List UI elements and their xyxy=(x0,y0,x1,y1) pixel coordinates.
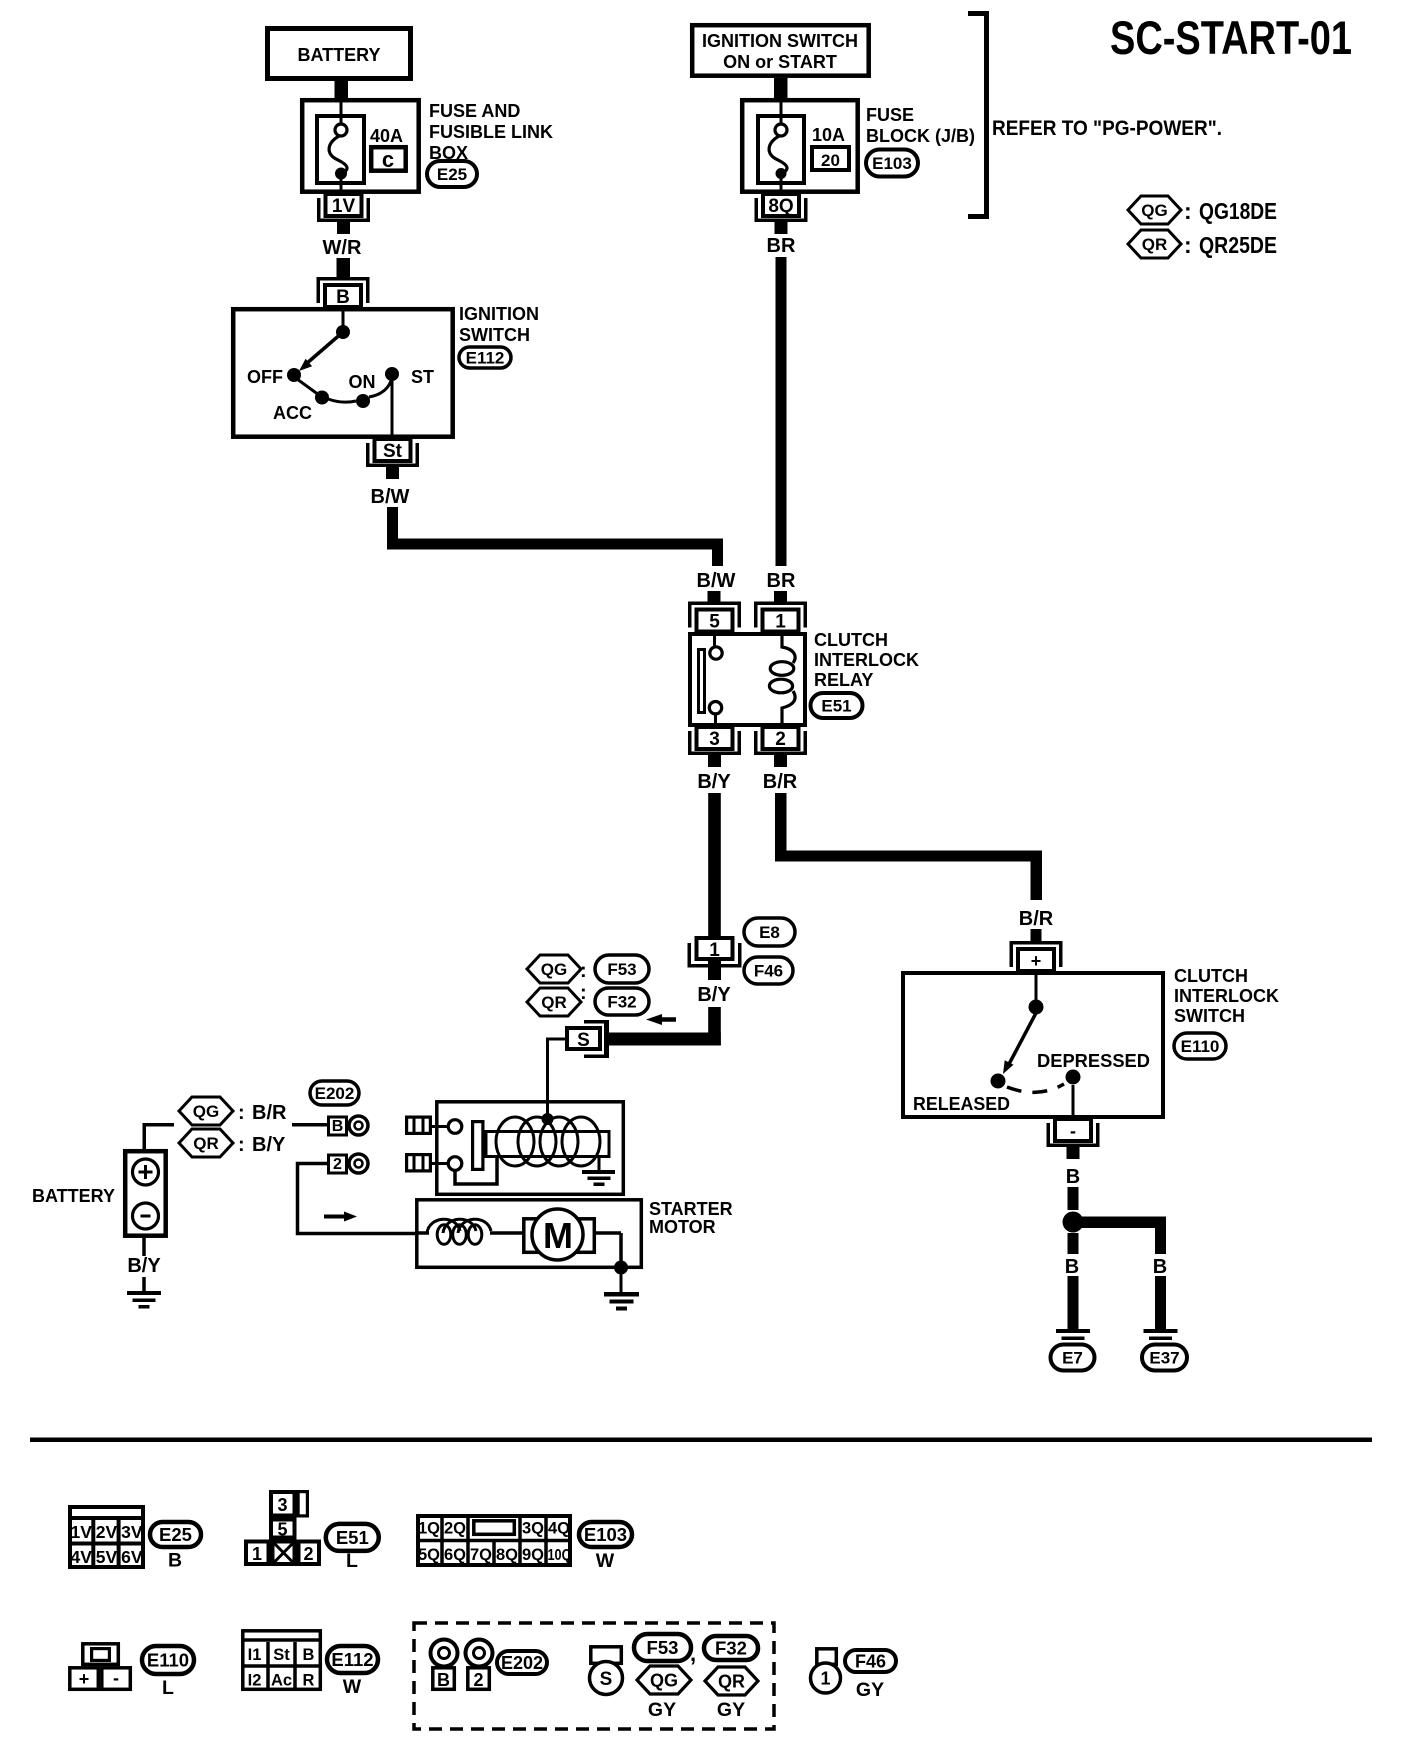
svg-text:4Q: 4Q xyxy=(548,1520,570,1538)
svg-text:ST: ST xyxy=(411,367,434,387)
svg-text:B: B xyxy=(332,1118,344,1135)
svg-text:E202: E202 xyxy=(501,1653,543,1673)
svg-text:B: B xyxy=(1065,1256,1079,1278)
svg-text:E8: E8 xyxy=(759,923,780,942)
svg-text:7Q: 7Q xyxy=(470,1546,492,1564)
svg-text:9Q: 9Q xyxy=(522,1546,544,1564)
svg-text:B/W: B/W xyxy=(371,486,410,508)
svg-text::: : xyxy=(580,960,587,982)
svg-text:L: L xyxy=(346,1550,358,1572)
svg-text:S: S xyxy=(600,1669,613,1690)
svg-text:5Q: 5Q xyxy=(418,1546,440,1564)
svg-text:BR: BR xyxy=(767,570,796,592)
svg-text:1V: 1V xyxy=(332,196,356,217)
svg-text:SWITCH: SWITCH xyxy=(1174,1006,1245,1026)
svg-text:8Q: 8Q xyxy=(768,196,793,217)
svg-text:QG: QG xyxy=(650,1671,678,1691)
svg-text:BR: BR xyxy=(767,235,796,257)
svg-text:QG: QG xyxy=(541,960,567,979)
svg-text:,: , xyxy=(690,1641,696,1666)
svg-text:ACC: ACC xyxy=(273,403,312,423)
svg-text:3Q: 3Q xyxy=(522,1520,544,1538)
svg-text:2: 2 xyxy=(775,729,786,750)
svg-text:5: 5 xyxy=(709,612,720,633)
svg-text:+: + xyxy=(1031,951,1042,971)
svg-text:QG18DE: QG18DE xyxy=(1199,198,1277,224)
svg-text:B/R: B/R xyxy=(1019,908,1054,930)
svg-text:REFER TO "PG-POWER".: REFER TO "PG-POWER". xyxy=(992,117,1222,140)
svg-text::: : xyxy=(1184,232,1192,258)
svg-text:E112: E112 xyxy=(331,1649,373,1670)
svg-text:5V: 5V xyxy=(96,1547,118,1567)
svg-text:B/Y: B/Y xyxy=(697,984,731,1006)
svg-text:B/R: B/R xyxy=(763,771,798,793)
svg-text:-: - xyxy=(113,1668,119,1688)
svg-text:QR: QR xyxy=(541,993,567,1012)
svg-text:2: 2 xyxy=(303,1544,313,1564)
svg-text:E51: E51 xyxy=(821,697,851,716)
svg-text:6V: 6V xyxy=(121,1547,143,1567)
svg-text::: : xyxy=(238,1102,245,1124)
svg-text:RELAY: RELAY xyxy=(814,670,873,690)
svg-text:W: W xyxy=(596,1550,615,1572)
svg-text:5: 5 xyxy=(277,1520,287,1540)
svg-text:E110: E110 xyxy=(1181,1037,1220,1056)
svg-text:E25: E25 xyxy=(159,1524,192,1545)
svg-text:RELEASED: RELEASED xyxy=(913,1094,1010,1114)
svg-text:F32: F32 xyxy=(715,1638,747,1659)
svg-text:SWITCH: SWITCH xyxy=(459,325,530,345)
svg-text:B: B xyxy=(1066,1166,1080,1188)
svg-text:SC-START-01: SC-START-01 xyxy=(1110,11,1352,64)
svg-text:QG: QG xyxy=(193,1102,219,1121)
svg-text:I1: I1 xyxy=(248,1646,262,1664)
svg-text:B/R: B/R xyxy=(252,1102,287,1124)
svg-text:BLOCK (J/B): BLOCK (J/B) xyxy=(866,126,975,146)
svg-text:B/W: B/W xyxy=(697,570,736,592)
svg-text:F46: F46 xyxy=(855,1652,886,1672)
svg-text:L: L xyxy=(162,1677,174,1699)
svg-text::: : xyxy=(1184,198,1192,224)
svg-text:QG: QG xyxy=(1141,201,1167,220)
svg-text:E112: E112 xyxy=(466,349,505,368)
svg-text:B: B xyxy=(1153,1256,1167,1278)
svg-text:ON or START: ON or START xyxy=(723,52,837,72)
svg-text:W: W xyxy=(343,1676,362,1698)
svg-text:1: 1 xyxy=(820,1669,830,1689)
svg-text:B/Y: B/Y xyxy=(697,771,731,793)
svg-text:CLUTCH: CLUTCH xyxy=(814,630,888,650)
svg-text:GY: GY xyxy=(648,1699,676,1721)
svg-text:B/Y: B/Y xyxy=(127,1255,161,1277)
svg-text:3: 3 xyxy=(277,1495,287,1515)
svg-text:1: 1 xyxy=(252,1544,262,1564)
svg-text:St: St xyxy=(273,1646,290,1664)
svg-text:STARTER: STARTER xyxy=(649,1199,733,1219)
svg-text:4V: 4V xyxy=(70,1547,92,1567)
svg-text:E7: E7 xyxy=(1062,1349,1083,1368)
svg-text:GY: GY xyxy=(717,1699,745,1721)
svg-text:40A: 40A xyxy=(370,126,403,146)
svg-text:GY: GY xyxy=(856,1679,884,1701)
svg-text:BATTERY: BATTERY xyxy=(32,1186,115,1206)
svg-text:E51: E51 xyxy=(336,1527,369,1548)
svg-text:BATTERY: BATTERY xyxy=(298,45,381,65)
svg-text:2Q: 2Q xyxy=(444,1520,466,1538)
svg-text:IGNITION: IGNITION xyxy=(459,304,539,324)
svg-text::: : xyxy=(238,1134,245,1156)
svg-text:FUSE: FUSE xyxy=(866,105,914,125)
svg-text:8Q: 8Q xyxy=(496,1546,518,1564)
svg-text:B/Y: B/Y xyxy=(252,1134,286,1156)
svg-text:IGNITION SWITCH: IGNITION SWITCH xyxy=(702,31,858,51)
svg-text:-: - xyxy=(1070,1121,1076,1141)
svg-text:F46: F46 xyxy=(754,962,783,981)
svg-text:E25: E25 xyxy=(437,165,467,184)
svg-text:INTERLOCK: INTERLOCK xyxy=(814,650,919,670)
svg-text:2V: 2V xyxy=(96,1522,118,1542)
svg-text:M: M xyxy=(543,1215,573,1256)
svg-text:St: St xyxy=(383,441,403,462)
svg-text:Ac: Ac xyxy=(271,1672,292,1690)
svg-text:F53: F53 xyxy=(647,1637,679,1658)
svg-text:OFF: OFF xyxy=(247,367,283,387)
svg-text:FUSIBLE LINK: FUSIBLE LINK xyxy=(429,122,553,142)
svg-text:20: 20 xyxy=(821,151,840,170)
svg-text:DEPRESSED: DEPRESSED xyxy=(1037,1051,1150,1071)
svg-text:1: 1 xyxy=(775,612,786,633)
svg-text:QR: QR xyxy=(718,1672,745,1692)
svg-text:S: S xyxy=(577,1030,590,1051)
svg-text:F53: F53 xyxy=(607,960,636,979)
svg-text:QR: QR xyxy=(193,1134,219,1153)
svg-text:E103: E103 xyxy=(872,154,912,173)
svg-text:E110: E110 xyxy=(147,1650,189,1671)
svg-text:FUSE AND: FUSE AND xyxy=(429,101,520,121)
svg-text:E37: E37 xyxy=(1149,1349,1179,1368)
svg-text:1V: 1V xyxy=(70,1522,92,1542)
svg-text:BOX: BOX xyxy=(429,143,468,163)
svg-text:1: 1 xyxy=(709,940,720,961)
svg-text:R: R xyxy=(303,1672,315,1690)
svg-text:+: + xyxy=(79,1669,90,1689)
svg-text:B: B xyxy=(437,1670,450,1690)
svg-text:MOTOR: MOTOR xyxy=(649,1217,716,1237)
svg-text:E202: E202 xyxy=(315,1084,355,1103)
svg-text:B: B xyxy=(336,287,350,308)
svg-text:ON: ON xyxy=(349,372,376,392)
svg-text:3V: 3V xyxy=(121,1522,143,1542)
svg-text:10Q: 10Q xyxy=(548,1547,572,1564)
svg-text:INTERLOCK: INTERLOCK xyxy=(1174,986,1279,1006)
svg-text:F32: F32 xyxy=(607,993,636,1012)
svg-text:6Q: 6Q xyxy=(444,1546,466,1564)
svg-text:B: B xyxy=(168,1550,182,1572)
svg-text:QR: QR xyxy=(1142,235,1168,254)
svg-text:1Q: 1Q xyxy=(418,1520,440,1538)
svg-text:E103: E103 xyxy=(584,1524,627,1545)
svg-text:QR25DE: QR25DE xyxy=(1199,232,1277,258)
svg-text::: : xyxy=(580,982,587,1004)
svg-text:3: 3 xyxy=(709,729,720,750)
svg-text:W/R: W/R xyxy=(323,237,362,259)
svg-text:CLUTCH: CLUTCH xyxy=(1174,966,1248,986)
svg-text:I2: I2 xyxy=(248,1672,262,1690)
svg-text:2: 2 xyxy=(473,1670,483,1690)
svg-text:2: 2 xyxy=(333,1156,342,1173)
svg-text:c: c xyxy=(382,147,394,172)
svg-text:B: B xyxy=(303,1646,315,1664)
svg-text:10A: 10A xyxy=(812,125,845,145)
